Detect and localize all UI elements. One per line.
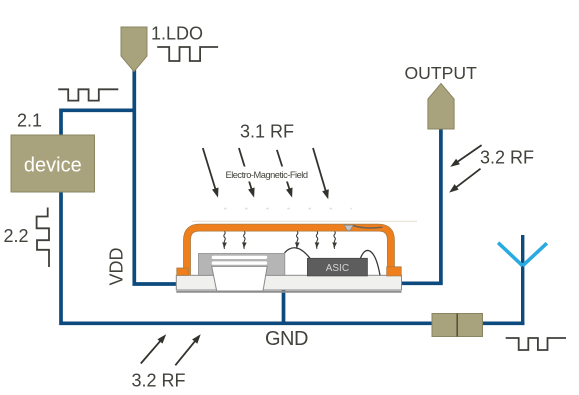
faint top border of inset image (192, 220, 417, 222)
coupler box on GND line (432, 314, 483, 337)
lid left foot (177, 268, 188, 275)
EMF squiggle arrow 3 (295, 232, 300, 249)
svg-text:ASIC: ASIC (326, 263, 349, 274)
svg-text:2.2: 2.2 (4, 226, 29, 246)
EMF squiggle arrow 4 (315, 232, 320, 249)
LDO arrow pad (down pentagon) (121, 27, 147, 72)
square wave symbol beside 1.LDO (157, 47, 218, 61)
lid seam line (353, 226, 382, 228)
MEMS sound port cavity (212, 266, 268, 291)
lid right foot (387, 267, 402, 276)
3.1 RF field arrow 4 (313, 148, 329, 199)
svg-text:3.1 RF: 3.1 RF (240, 122, 294, 142)
svg-text:device: device (24, 155, 82, 177)
MEMS die (199, 254, 285, 276)
ASIC die (307, 258, 367, 276)
square wave symbol at antenna feed (506, 338, 566, 350)
package substrate (176, 275, 401, 292)
wire: antenna mast (521, 235, 524, 325)
2.2 vertical square-wave symbol (37, 208, 49, 268)
antenna V arms (498, 243, 547, 266)
metal lid (orange can) (177, 228, 401, 276)
svg-text:2.1: 2.1 (17, 111, 42, 131)
wire: LDO supply vertical + VDD feed to package (134, 70, 176, 284)
OUTPUT arrow pad (up pentagon) (428, 84, 454, 130)
EMF squiggle arrow 1 (222, 232, 227, 249)
lid seam notch (344, 225, 382, 231)
wire: device bottom down and GND rail to antenna (61, 191, 525, 323)
svg-text:1.LDO: 1.LDO (151, 24, 203, 44)
label Electro-Magnetic-Field (222, 167, 310, 182)
EMF squiggle arrow 5 (332, 232, 337, 249)
svg-text:3.2 RF: 3.2 RF (480, 148, 534, 168)
3.2 RF arrow right 2 (449, 169, 480, 193)
3.2 RF arrow bottom 1 (141, 334, 166, 363)
svg-text:3.2 RF: 3.2 RF (132, 371, 186, 391)
wire: package ground stub (282, 290, 286, 323)
bond wire ASIC to substrate (361, 250, 381, 275)
svg-text:GND: GND (265, 328, 308, 350)
square wave symbol above device (58, 89, 118, 100)
EMF squiggle arrow 2 (242, 232, 247, 249)
svg-text:OUTPUT: OUTPUT (405, 63, 478, 83)
3.1 RF field arrow 2 (239, 148, 255, 198)
wire: package output to OUTPUT pad (401, 129, 441, 283)
wire: device top to LDO rail (61, 110, 134, 136)
3.2 RF arrow bottom 2 (175, 334, 200, 365)
3.1 RF field arrow 3 (277, 150, 293, 198)
bond wire MEMS to ASIC (285, 248, 311, 259)
svg-text:Electro-Magnetic-Field: Electro-Magnetic-Field (226, 170, 308, 180)
faint dotted line above lid (224, 208, 352, 210)
3.1 RF field arrow 1 (203, 148, 219, 198)
device box (11, 135, 95, 192)
3.2 RF arrow right 1 (450, 145, 481, 167)
svg-text:VDD: VDD (107, 247, 127, 285)
